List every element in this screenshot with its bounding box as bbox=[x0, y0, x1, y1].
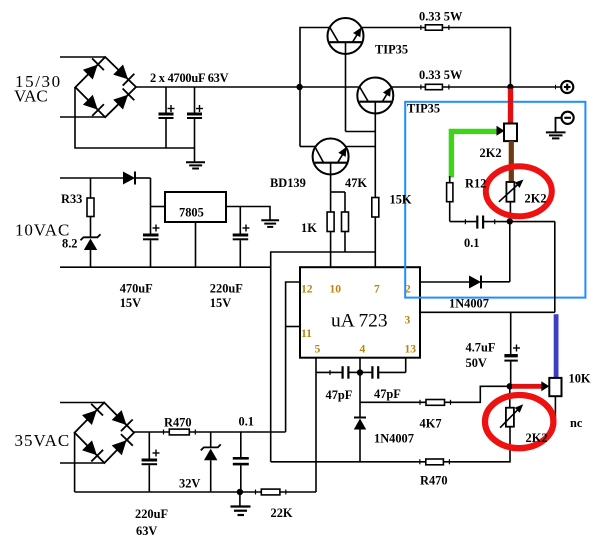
svg-text:4: 4 bbox=[360, 343, 366, 356]
svg-text:22K: 22K bbox=[271, 506, 293, 520]
wire bridge negative down bbox=[75, 87, 195, 148]
wire pin4 bbox=[359, 358, 361, 418]
svg-text:10K: 10K bbox=[569, 372, 591, 386]
resistor 15K bbox=[372, 198, 379, 218]
svg-text:220uF: 220uF bbox=[135, 507, 168, 521]
svg-text:35VAC: 35VAC bbox=[15, 431, 71, 450]
svg-text:1N4007: 1N4007 bbox=[449, 297, 489, 311]
svg-text:0.33 5W: 0.33 5W bbox=[419, 68, 463, 82]
red arrow annotation (to 10K) bbox=[512, 384, 543, 389]
diode D3 1N4007 (pin2 row) bbox=[469, 276, 510, 289]
svg-text:5: 5 bbox=[315, 343, 321, 356]
potentiometer 10K bbox=[549, 378, 561, 424]
svg-text:1K: 1K bbox=[301, 221, 317, 235]
wire Q3 collector from bus bbox=[300, 146, 315, 148]
svg-text:15V: 15V bbox=[120, 296, 141, 310]
svg-text:TIP35: TIP35 bbox=[407, 102, 440, 116]
wire right to pin3 column bbox=[554, 221, 556, 312]
svg-text:2K2: 2K2 bbox=[526, 431, 548, 445]
svg-text:15V: 15V bbox=[210, 296, 231, 310]
transistor Q2 TIP35 bbox=[357, 78, 393, 198]
resistor 22K bbox=[261, 489, 280, 495]
resistor R33 bbox=[87, 178, 94, 237]
terminal minus output bbox=[556, 112, 574, 132]
wire Q2 emitter to resistor bbox=[391, 86, 425, 88]
wire 10VAC return rail bbox=[60, 266, 271, 268]
node pot1 bottom junction bbox=[507, 218, 513, 224]
transistor Q1 TIP35 bbox=[328, 18, 364, 132]
svg-text:50V: 50V bbox=[466, 356, 487, 370]
brown wire (2K2 to pot) bbox=[509, 141, 514, 182]
ground (35VAC) bbox=[231, 492, 251, 515]
potentiometer 2K2 (lower, circled) bbox=[500, 386, 523, 427]
bridge rectifier BR2 (35VAC) bbox=[75, 403, 134, 464]
wire lead ticks bbox=[164, 25, 451, 495]
IC U1 uA723 box bbox=[300, 267, 420, 358]
svg-text:0.1: 0.1 bbox=[239, 415, 255, 429]
wire pin11 bbox=[286, 326, 300, 328]
node ground junction bbox=[237, 489, 243, 495]
resistor 0.33 5W (second) bbox=[425, 84, 442, 89]
resistor 47K bbox=[342, 192, 349, 252]
svg-text:47K: 47K bbox=[345, 176, 367, 190]
wire Q3 base split bbox=[331, 191, 345, 193]
node main bus junction bbox=[296, 84, 302, 90]
wire rail to pins12/11 column bbox=[189, 431, 285, 433]
resistor 2K2 (upper) bbox=[504, 124, 517, 142]
node 4.7uF bottom junction bbox=[507, 383, 513, 389]
svg-text:47pF: 47pF bbox=[374, 387, 401, 401]
ground (filter caps) bbox=[186, 162, 205, 168]
svg-text:0.33 5W: 0.33 5W bbox=[419, 10, 463, 24]
wire Q3 emitter to 15K line bbox=[346, 146, 375, 148]
wire bridge positive rail bbox=[136, 86, 360, 88]
wire Q1 base to Q2 base line bbox=[346, 131, 376, 133]
wire 35VAC ground rail bbox=[75, 491, 262, 493]
wire pin13 bbox=[405, 358, 407, 373]
svg-text:32V: 32V bbox=[179, 477, 200, 491]
svg-text:2K2: 2K2 bbox=[525, 192, 547, 206]
wire 35VAC bottom input bbox=[60, 462, 105, 464]
wire bridge2 positive rail bbox=[134, 431, 169, 433]
ground (minus terminal) bbox=[546, 132, 566, 138]
capacitor 47pF (right) bbox=[360, 366, 406, 379]
wire bridge2 negative bbox=[74, 433, 76, 492]
wire pot node down to diode row bbox=[509, 221, 511, 281]
svg-text:2K2: 2K2 bbox=[480, 146, 502, 160]
wire to plus terminal bbox=[442, 86, 560, 88]
node output junction bbox=[507, 84, 513, 90]
ground (7805 output) bbox=[261, 220, 279, 227]
svg-text:TIP35: TIP35 bbox=[375, 43, 408, 57]
svg-text:7: 7 bbox=[374, 283, 380, 296]
resistor 4K7 bbox=[426, 400, 445, 406]
capacitor 220uF 63V bbox=[142, 432, 160, 492]
svg-text:47pF: 47pF bbox=[326, 388, 353, 402]
svg-text:VAC: VAC bbox=[14, 86, 48, 105]
red ellipse annotation (upper 2K2) bbox=[486, 166, 552, 216]
potentiometer 2K2 (upper, circled) bbox=[499, 180, 524, 222]
wire 22K to pin5 bbox=[280, 491, 316, 493]
diode D2 1N4007 (vertical) bbox=[354, 418, 366, 462]
wire Q1 emitter to resistor bbox=[361, 27, 425, 29]
red thick wire (output to 2K2) bbox=[508, 89, 513, 125]
resistor 0.33 5W (top) bbox=[425, 25, 442, 30]
wire 15K to pin7 bbox=[374, 217, 376, 267]
wire bottom row R470 bbox=[271, 461, 426, 463]
svg-text:13: 13 bbox=[405, 343, 417, 356]
blue box TIP35 region bbox=[405, 102, 585, 298]
wire 4K7 row bbox=[360, 401, 426, 403]
wire 10VAC top bbox=[60, 177, 123, 179]
svg-text:uA 723: uA 723 bbox=[331, 311, 388, 332]
wire node A horizontal bbox=[271, 252, 376, 462]
capacitor C1 4700uF bbox=[159, 87, 175, 148]
wire 7805 gnd pin bbox=[195, 222, 197, 267]
capacitor 4.7uF bbox=[504, 312, 520, 386]
wire pin2 bbox=[420, 281, 469, 283]
resistor 1K bbox=[327, 212, 334, 232]
svg-text:R12: R12 bbox=[465, 177, 486, 191]
red ellipse annotation (lower 2K2) bbox=[485, 395, 553, 448]
svg-text:10: 10 bbox=[330, 283, 342, 296]
green wire arrowhead bbox=[497, 126, 505, 136]
wire pin3 bbox=[420, 311, 555, 313]
svg-text:2 x 4700uF 63V: 2 x 4700uF 63V bbox=[150, 71, 229, 85]
svg-text:12: 12 bbox=[301, 283, 313, 296]
diode D1 (10VAC) bbox=[123, 172, 151, 185]
zener 8.2V bbox=[81, 234, 101, 267]
green wire annotation bbox=[451, 131, 497, 177]
wire resistor to right rail corner bbox=[442, 28, 510, 88]
svg-text:0.1: 0.1 bbox=[464, 236, 480, 250]
capacitor 0.1 (35V rail) bbox=[233, 432, 249, 492]
resistor R12 bbox=[447, 176, 453, 221]
wire 7805 output bbox=[226, 207, 270, 221]
svg-text:2: 2 bbox=[405, 283, 411, 296]
wire pin5 bbox=[315, 358, 317, 492]
wire diode to 7805 input bbox=[150, 178, 152, 234]
capacitor 220uF (10V section) bbox=[233, 207, 250, 268]
svg-text:nc: nc bbox=[570, 416, 583, 430]
wire Q1 collector left bbox=[300, 28, 330, 147]
svg-text:15K: 15K bbox=[390, 193, 412, 207]
wire 4K7 to cap node bbox=[445, 386, 510, 402]
wire 35VAC top input bbox=[60, 402, 104, 404]
capacitor C2 4700uF bbox=[187, 87, 203, 162]
svg-text:4.7uF: 4.7uF bbox=[466, 341, 496, 355]
svg-text:220uF: 220uF bbox=[210, 282, 243, 296]
terminal plus output bbox=[556, 81, 574, 93]
svg-text:1N4007: 1N4007 bbox=[374, 432, 414, 446]
svg-text:4K7: 4K7 bbox=[420, 417, 442, 431]
capacitor 0.1 (blue box) bbox=[450, 216, 555, 229]
svg-text:7805: 7805 bbox=[179, 206, 204, 220]
blue thick wire (pin3 to 10K) bbox=[554, 314, 559, 378]
capacitor 47pF (left) bbox=[316, 366, 360, 379]
svg-text:3: 3 bbox=[405, 314, 411, 327]
transistor Q3 BD139 bbox=[313, 139, 349, 268]
wire AC input top bbox=[60, 56, 105, 58]
svg-text:R470: R470 bbox=[420, 474, 448, 488]
svg-text:470uF: 470uF bbox=[120, 282, 153, 296]
capacitor 470uF bbox=[143, 225, 160, 268]
svg-text:10VAC: 10VAC bbox=[15, 221, 70, 240]
svg-text:63V: 63V bbox=[136, 524, 157, 538]
wire R470 to pot bottom bbox=[443, 427, 510, 462]
node pin4 junction bbox=[357, 369, 363, 375]
wire AC input bottom bbox=[60, 116, 105, 118]
wire pin12 bbox=[286, 282, 300, 432]
regulator U2 7805 bbox=[165, 192, 226, 222]
resistor R470 (bottom) bbox=[426, 459, 444, 465]
svg-text:BD139: BD139 bbox=[270, 176, 306, 190]
resistor R470 (35V rail) bbox=[169, 429, 189, 435]
svg-text:11: 11 bbox=[301, 327, 312, 340]
zener 32V bbox=[201, 432, 221, 492]
svg-text:R470: R470 bbox=[164, 416, 192, 430]
bridge rectifier BR1 (15/30 VAC) bbox=[75, 57, 136, 117]
svg-text:R33: R33 bbox=[61, 192, 82, 206]
